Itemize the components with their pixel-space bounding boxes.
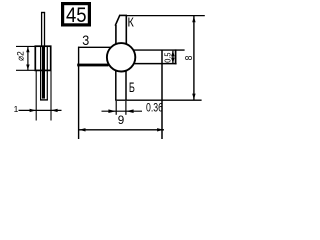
- dim 9 line with arrows: [79, 128, 164, 131]
- lead through body (side view): [42, 47, 45, 99]
- emitter tab (left): [77, 47, 110, 139]
- extension line at x=162 for dim 9: [161, 50, 163, 139]
- disc body (side view): [35, 46, 50, 70]
- extension lines for dim 1: [36, 71, 51, 121]
- svg-text:0.5: 0.5: [163, 52, 172, 63]
- top extension line for dim 8: [127, 15, 205, 17]
- dimension 1 line with arrows: [19, 109, 62, 112]
- svg-text:З: З: [82, 33, 89, 48]
- svg-text:45: 45: [66, 4, 87, 27]
- lead width dimension line with outside arrows: [102, 109, 143, 113]
- svg-text:1: 1: [14, 104, 19, 114]
- svg-text:К: К: [128, 15, 135, 30]
- right tab: [134, 49, 185, 64]
- svg-text:⌀2: ⌀2: [16, 51, 27, 61]
- svg-text:Б: Б: [129, 79, 135, 95]
- collector tab (top): [115, 15, 127, 44]
- slot (side view): [40, 47, 48, 100]
- svg-text:8: 8: [183, 55, 195, 60]
- figure number box: [63, 4, 90, 28]
- dia2 extension lines: [16, 46, 35, 70]
- svg-text:0.36: 0.36: [146, 102, 163, 114]
- dim 0.5 (tab thickness): [171, 51, 175, 64]
- extension lines below base lead: [116, 101, 126, 115]
- circle (front view body): [107, 43, 135, 71]
- lead (side view top): [41, 12, 45, 47]
- dim 8 vertical line with arrows: [192, 16, 195, 100]
- svg-text:9: 9: [118, 113, 125, 127]
- lead end bar and bottom extension line for dim 8: [115, 99, 201, 101]
- base tab (bottom leads): [116, 71, 126, 101]
- dia2 dimension line: [26, 46, 29, 70]
